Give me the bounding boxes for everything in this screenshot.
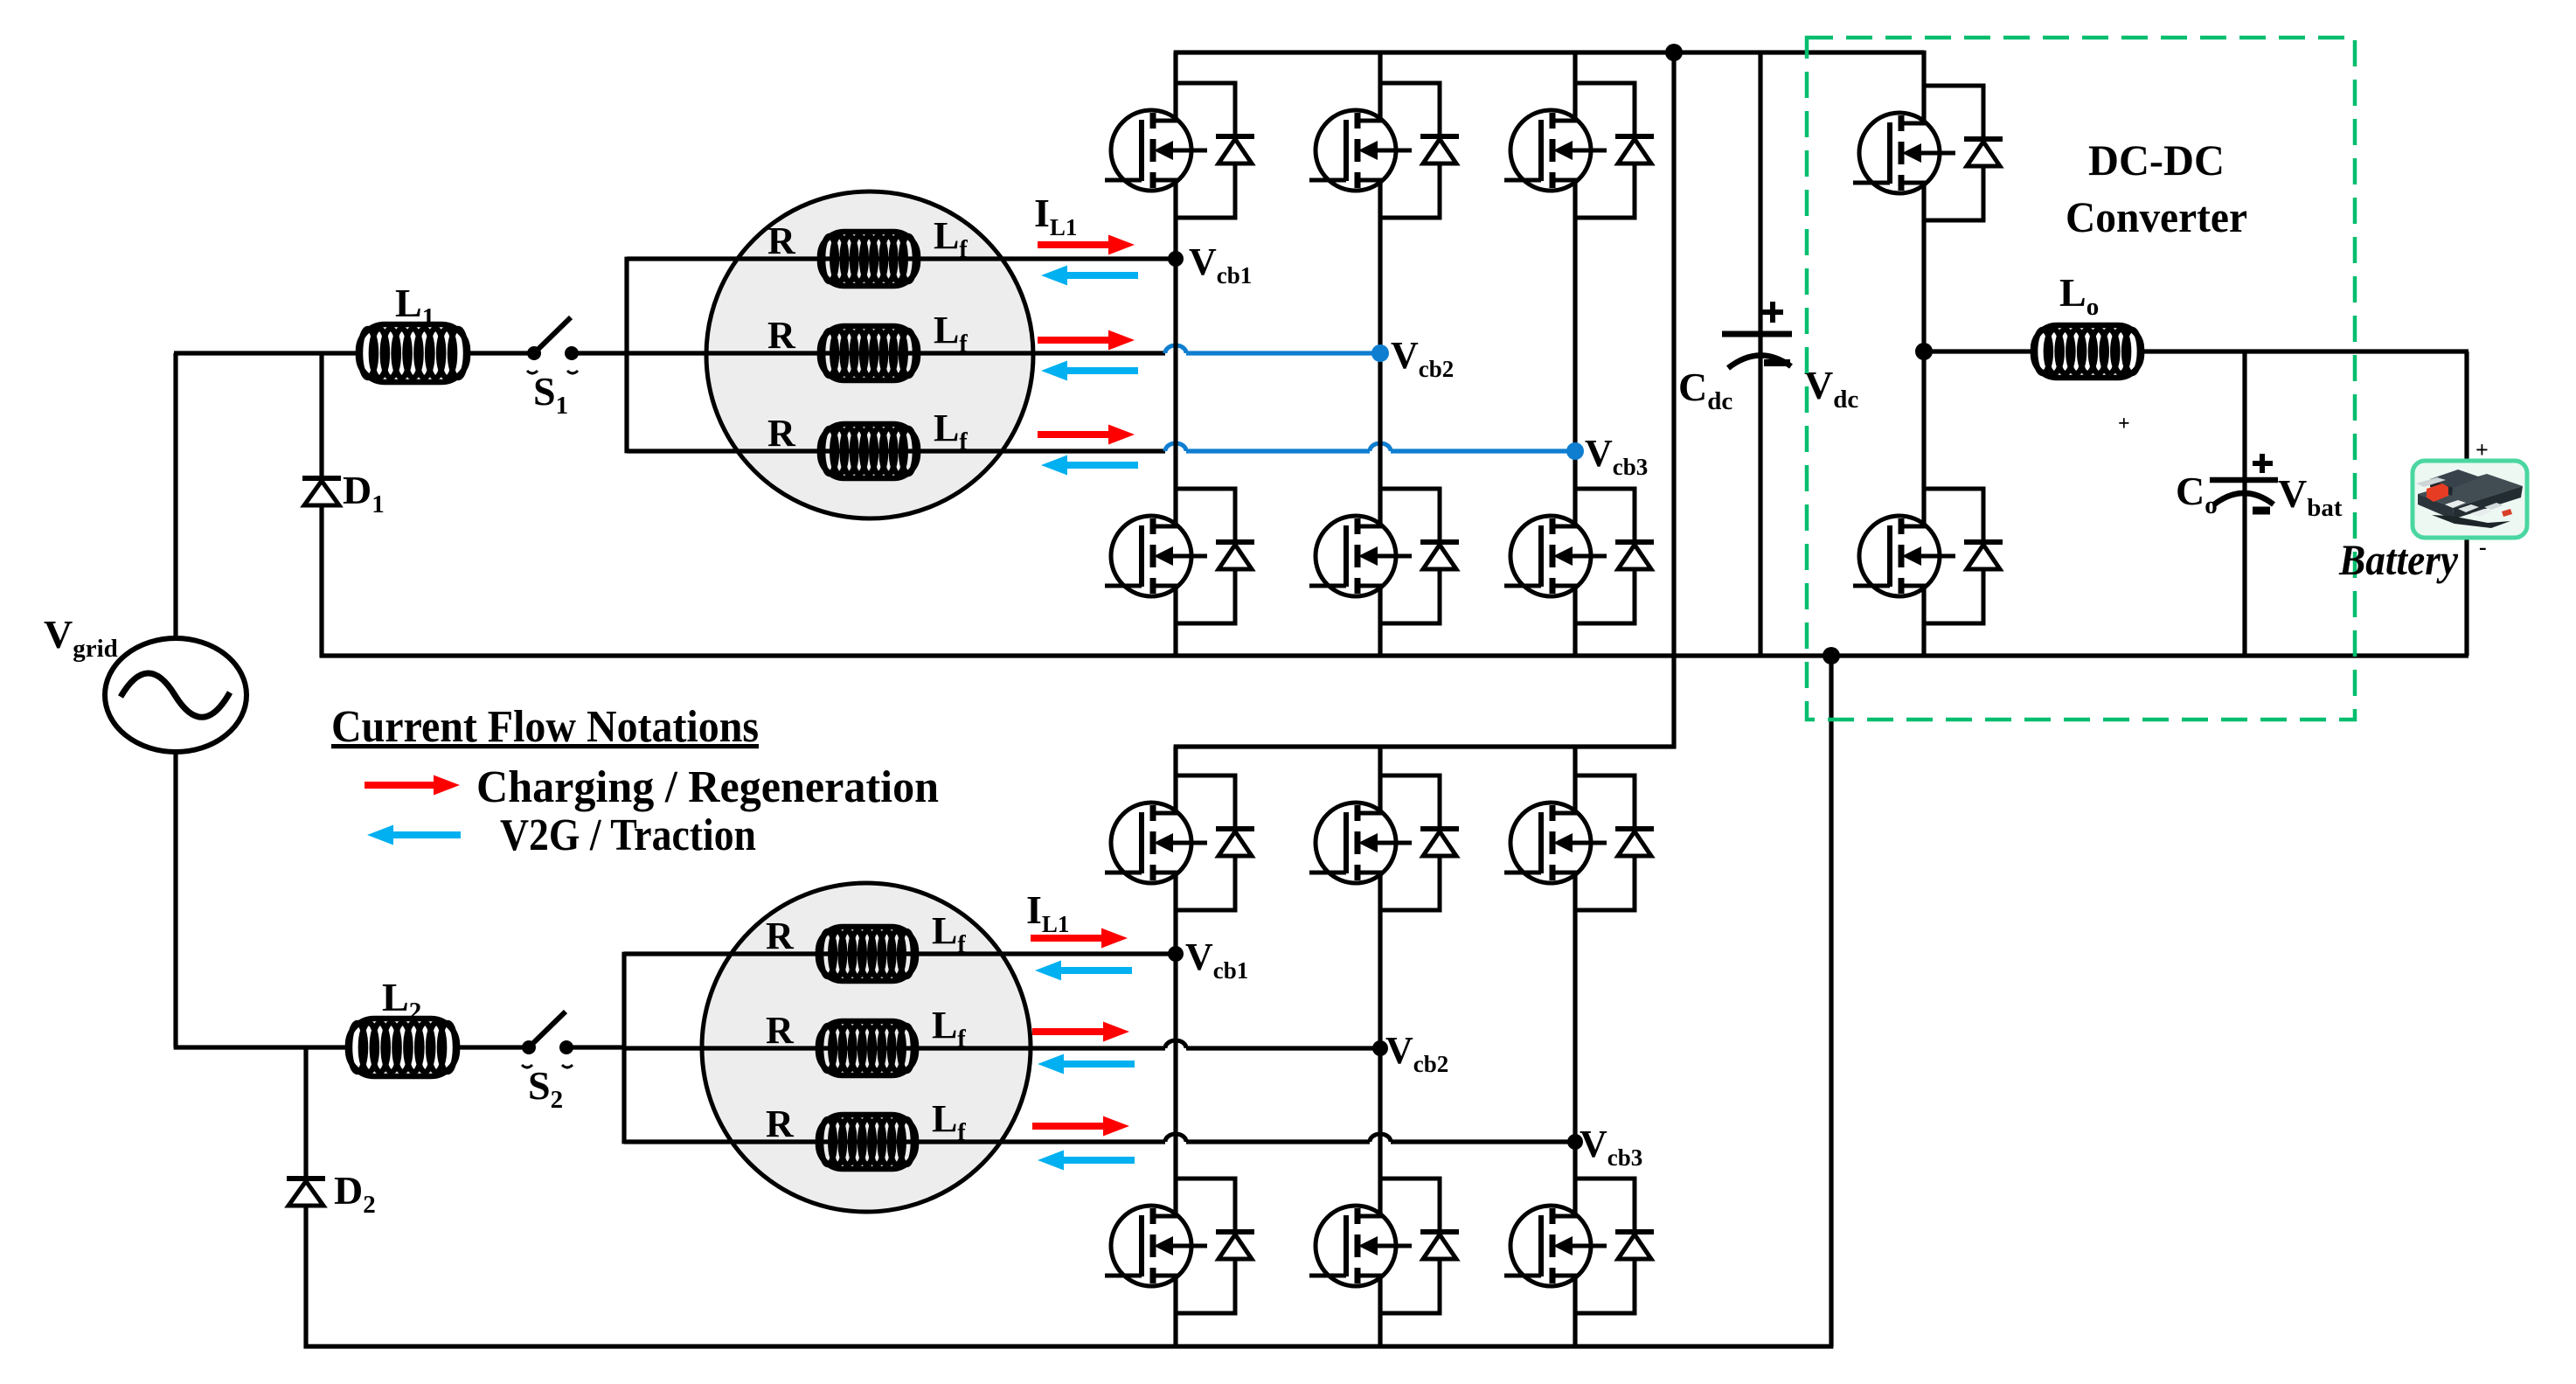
diode: body diode of Q1H [1176, 83, 1254, 218]
label + (Cdc polarity) [1762, 302, 1783, 323]
transistor Q3L (top inverter low side leg 3) (MOSFET) [1504, 477, 1607, 635]
wire: left phase bus (top) [624, 257, 628, 454]
node: DC-DC midpoint [1915, 343, 1933, 360]
transistor Q2H (bottom inverter high side leg 2) (MOSFET) [1309, 764, 1412, 922]
svg-text:Converter: Converter [2066, 192, 2247, 241]
wire: phase c line (bottom) [624, 1139, 1165, 1144]
svg-text:+: + [2118, 413, 2130, 435]
transistor QL (DC-DC low side) (MOSFET) [1853, 477, 1955, 635]
label + (Co polarity) [2253, 454, 2273, 473]
current arrows phase c (bottom) [1032, 1116, 1129, 1137]
inductor coil Lf phase c (bottom) [818, 1115, 916, 1169]
node Vcb3 (bottom) [1567, 1134, 1583, 1150]
wire: dc+ top rail [1174, 50, 1924, 54]
wire: bottom dc rail (bottom converter) [304, 1344, 1834, 1348]
diode: body diode of Q1L [1176, 489, 1254, 623]
wire: Lo to battery branch [2142, 349, 2468, 353]
current arrows phase a (top) [1038, 235, 1135, 255]
wire: dc+ rail (bottom inverter) [1174, 744, 1677, 748]
current arrows phase a (bottom) [1031, 928, 1128, 949]
motor stator (bottom machine) [702, 883, 1031, 1212]
svg-text:R: R [767, 219, 796, 262]
legend: charging arrow [365, 775, 460, 796]
inductor coil Lf phase a (bottom) [818, 927, 916, 981]
current arrows phase c (top) [1038, 425, 1135, 445]
wire: bottom loop horizontal to L2 [174, 1045, 351, 1049]
DC-DC converter boundary (dashed box) [1807, 38, 2355, 720]
wire: Vgrid bottom terminal down [173, 751, 177, 1047]
node: D1 branch junction [319, 353, 323, 478]
current arrows phase b (top) [1038, 330, 1135, 351]
svg-text:Charging / Regeneration: Charging / Regeneration [476, 762, 939, 812]
battery icon [2413, 461, 2527, 538]
wire: S1 to three-phase bus [577, 351, 628, 355]
svg-text:R: R [766, 1009, 795, 1052]
svg-text:R: R [767, 412, 796, 455]
wire: midpoint to Lo [1924, 349, 2037, 353]
wire: inverter leg 2 (top inverter) [1378, 52, 1382, 656]
svg-text:R: R [766, 915, 795, 957]
diode D1 [302, 478, 341, 505]
inductor coil Lf phase a (top) [820, 232, 918, 286]
wire: phase a line (bottom) [624, 951, 1176, 956]
current arrows phase b (bottom) [1032, 1022, 1129, 1042]
diode: body diode of Q3L [1575, 489, 1654, 623]
wire: top loop horizontal to L1 [174, 351, 360, 355]
wire: bottom dc rail (top converter) [320, 653, 2468, 657]
diode: body diode of Q1H bottom [1176, 775, 1254, 910]
diode: body diode of Q2H [1380, 83, 1459, 218]
legend: V2G arrow [367, 825, 461, 845]
AC source Vgrid [105, 638, 246, 752]
wire: dc- drop to lower inverter [1829, 656, 1833, 1346]
svg-text:Current Flow Notations: Current Flow Notations [331, 702, 759, 752]
capacitor Co [2210, 351, 2278, 656]
diode: body diode of Q3L bottom [1575, 1179, 1654, 1313]
transistor Q1H (bottom inverter high side leg 1) (MOSFET) [1105, 764, 1207, 922]
node Vcb1 (top) [1168, 251, 1184, 267]
inductor coil Lo [2033, 325, 2142, 378]
label - (Co polarity) [2253, 507, 2270, 515]
transistor Q3H (bottom inverter high side leg 3) (MOSFET) [1504, 764, 1607, 922]
svg-text:V2G / Traction: V2G / Traction [500, 810, 756, 860]
diode D2 [287, 1179, 325, 1206]
diode: body diode of Q2L bottom [1380, 1179, 1459, 1313]
wire: inverter leg 1 (bottom inverter) [1173, 747, 1177, 1346]
wire: inverter leg 2 (bottom inverter) [1378, 747, 1382, 1346]
transistor Q1L (bottom inverter low side leg 1) (MOSFET) [1105, 1167, 1207, 1325]
svg-text:R: R [767, 314, 796, 357]
transistor QH (DC-DC high side) (MOSFET) [1853, 74, 1955, 232]
diode: body diode of Q3H bottom [1575, 775, 1654, 910]
wire: D2 branch [303, 1047, 308, 1179]
wire: L2 to switch S2 [457, 1045, 524, 1049]
transistor Q3L (bottom inverter low side leg 3) (MOSFET) [1504, 1167, 1607, 1325]
svg-text:R: R [766, 1102, 795, 1145]
wire: inverter leg 1 (top inverter) [1173, 52, 1177, 656]
wire: battery right branch [2464, 351, 2468, 656]
wire: dc+ drop to lower inverter [1671, 52, 1676, 748]
inductor coil Lf phase c (top) [820, 424, 918, 478]
wire: left phase bus (bottom) [621, 952, 626, 1144]
wire: D2 to bottom rail [303, 1206, 308, 1348]
transistor Q2H (top inverter high side leg 2) (MOSFET) [1309, 72, 1412, 229]
svg-text:Battery: Battery [2338, 535, 2459, 584]
capacitor Cdc [1722, 52, 1792, 656]
inductor coil L1 [358, 324, 468, 382]
node: dc- junction dot [1823, 647, 1840, 664]
blue link: Vcb2 line (top) [1165, 345, 1186, 353]
diode: body diode of Q3H [1575, 83, 1654, 218]
diode: body diode of Q2L [1380, 489, 1459, 623]
wire: inverter leg 3 (bottom inverter) [1573, 747, 1577, 1346]
svg-text:+: + [2475, 437, 2489, 462]
switch S1 [527, 317, 579, 373]
blue link: Vcb3 line (top) [1165, 443, 1186, 451]
wire: DC-DC leg [1921, 51, 1926, 656]
wire: phase c line (top) [627, 449, 1165, 453]
diode: body diode of Q2H bottom [1380, 775, 1459, 910]
transistor Q2L (top inverter low side leg 2) (MOSFET) [1309, 477, 1412, 635]
wire: phase a line (top) [627, 256, 1177, 261]
node: dc+ junction dot [1665, 44, 1683, 61]
diode: body diode of QL [1924, 489, 2003, 623]
wire: D1 to bottom rail [319, 505, 323, 657]
inductor coil Lf phase b (bottom) [818, 1021, 916, 1075]
wire: inverter leg 3 (top inverter) [1573, 52, 1577, 656]
motor stator (top machine) [706, 191, 1033, 518]
wire: phase b line (top) [627, 351, 1165, 355]
transistor Q1H (top inverter high side leg 1) (MOSFET) [1105, 72, 1207, 229]
wire: phase b line (bottom) [624, 1046, 1165, 1050]
diode: body diode of Q1L bottom [1176, 1179, 1254, 1313]
inductor coil Lf phase b (top) [820, 326, 918, 380]
svg-text:-: - [2479, 534, 2487, 560]
node Vcb2 (top) [1371, 344, 1389, 362]
node Vcb2 (bottom) [1372, 1040, 1388, 1056]
transistor Q1L (top inverter low side leg 1) (MOSFET) [1105, 477, 1207, 635]
switch S2 [522, 1012, 573, 1068]
svg-text:DC-DC: DC-DC [2088, 136, 2225, 184]
transistor Q3H (top inverter high side leg 3) (MOSFET) [1504, 72, 1607, 229]
wire: S2 to three-phase bus (bottom) [572, 1045, 626, 1049]
wire: L1 to switch S1 [468, 351, 530, 355]
transistor Q2L (bottom inverter low side leg 2) (MOSFET) [1309, 1167, 1412, 1325]
node Vcb3 (top) [1566, 442, 1584, 460]
node Vcb1 (bottom) [1168, 946, 1184, 962]
wire: Vgrid top terminal up to top loop [173, 353, 177, 639]
diode: body diode of QH [1924, 86, 2003, 220]
inductor coil L2 [348, 1019, 457, 1076]
